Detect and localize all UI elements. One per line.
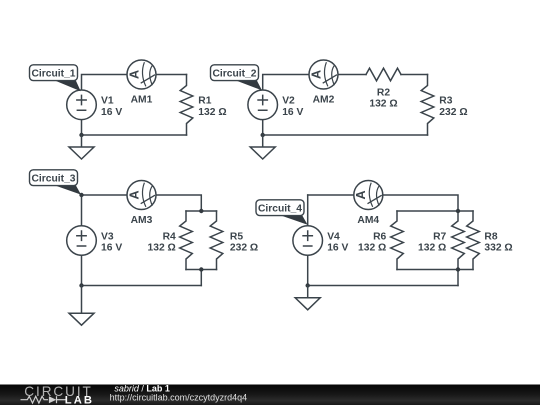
svg-text:V3: V3 <box>101 231 114 242</box>
svg-text:132 Ω: 132 Ω <box>369 99 397 110</box>
resistor R2 <box>366 68 401 81</box>
svg-text:R4: R4 <box>163 231 176 242</box>
R1 labels <box>198 96 226 118</box>
CircuitLab logo wire-resistor-diode glyph <box>21 396 66 403</box>
svg-text:A: A <box>354 190 368 199</box>
resistor R8 <box>467 211 480 270</box>
svg-text:R5: R5 <box>230 231 243 242</box>
wire: V4 vertical <box>307 195 309 286</box>
svg-text:232 Ω: 232 Ω <box>230 243 258 254</box>
R2 labels <box>369 87 397 109</box>
node: parallel top junction circuit 4 <box>456 209 460 213</box>
wire: top rail circuit 3 <box>82 195 202 211</box>
ground (circuit 1) <box>69 135 94 159</box>
wire: bottom rail circuit 3 <box>82 285 202 287</box>
svg-text:132 Ω: 132 Ω <box>198 107 226 118</box>
node: parallel bottom junction circuit 4 <box>456 267 460 271</box>
svg-text:132 Ω: 132 Ω <box>418 243 446 254</box>
V3 value labels <box>101 231 122 253</box>
R3 labels <box>439 96 467 118</box>
voltage source V1 <box>67 90 97 120</box>
V2 value labels <box>282 96 303 118</box>
svg-text:16 V: 16 V <box>327 243 348 254</box>
wire: parallel bottom bar circuit 4 <box>397 270 473 286</box>
wire: bottom rail circuit 4 <box>308 285 458 287</box>
node: parallel bottom junction circuit 3 <box>199 267 203 271</box>
voltage source V3 <box>67 226 97 256</box>
svg-text:16 V: 16 V <box>101 107 122 118</box>
resistor R3 <box>421 75 434 136</box>
svg-text:AM4: AM4 <box>357 215 379 226</box>
resistor R1 <box>180 75 193 136</box>
svg-text:16 V: 16 V <box>282 107 303 118</box>
svg-text:R3: R3 <box>439 96 452 107</box>
svg-text:A: A <box>127 190 141 199</box>
callout label Circuit_2 <box>211 65 262 91</box>
wire: bottom rail circuit 2 <box>263 119 428 135</box>
wire: top rail circuit 1 (V1 top to R1 top) <box>82 75 187 91</box>
resistor R7 <box>452 211 465 270</box>
resistor R4 <box>180 211 193 270</box>
svg-text:R2: R2 <box>377 87 390 98</box>
wire: parallel bottom bar circuit 3 <box>186 270 217 286</box>
node: junction at V4-/ground <box>306 283 310 287</box>
footer bar <box>0 385 540 405</box>
svg-text:232 Ω: 232 Ω <box>439 107 467 118</box>
callout label Circuit_1 <box>30 65 81 92</box>
svg-text:Circuit_3: Circuit_3 <box>31 174 75 185</box>
ammeter AM1 <box>127 60 156 89</box>
svg-text:R1: R1 <box>198 96 211 107</box>
ammeter AM2 <box>309 60 338 89</box>
wire: parallel top bar circuit 4 <box>397 210 473 212</box>
svg-text:R6: R6 <box>373 231 386 242</box>
R5 labels <box>230 231 258 253</box>
node: parallel top junction circuit 3 <box>199 209 203 213</box>
resistor R6 <box>391 211 404 270</box>
wire: top rail circuit 4 <box>308 195 458 211</box>
voltage source V4 <box>293 226 323 256</box>
wire: bottom rail circuit 1 (V1 bottom to R1 bottom) <box>82 119 187 135</box>
ammeter AM3 <box>127 181 156 210</box>
svg-text:V1: V1 <box>101 96 114 107</box>
svg-text:V2: V2 <box>282 96 295 107</box>
svg-text:LAB: LAB <box>65 394 94 405</box>
R6 labels <box>358 231 387 253</box>
node: junction at V3-/ground <box>79 283 83 287</box>
node: junction at V1-/ground <box>79 133 83 137</box>
callout label Circuit_4 <box>256 200 308 225</box>
R4 labels <box>148 231 177 253</box>
svg-text:V4: V4 <box>327 231 340 242</box>
wire: top rail circuit 2 (V2 top, through R2 position, to R3 top) <box>263 75 428 91</box>
ammeter AM4 <box>354 181 383 210</box>
V1 value labels <box>101 96 122 118</box>
svg-text:AM3: AM3 <box>131 215 153 226</box>
svg-text:Circuit_4: Circuit_4 <box>258 204 302 215</box>
voltage source V2 <box>248 90 278 120</box>
svg-text:332 Ω: 332 Ω <box>484 243 512 254</box>
svg-text:A: A <box>309 70 323 79</box>
ground (circuit 3) <box>69 286 94 326</box>
V4 value labels <box>327 231 348 253</box>
callout label Circuit_3 <box>30 170 82 195</box>
resistor R5 <box>210 211 223 270</box>
svg-text:Circuit_1: Circuit_1 <box>31 69 75 80</box>
svg-text:Circuit_2: Circuit_2 <box>212 69 256 80</box>
svg-text:132 Ω: 132 Ω <box>358 243 386 254</box>
R7 labels <box>418 231 447 253</box>
svg-text:16 V: 16 V <box>101 243 122 254</box>
svg-text:http://circuitlab.com/czcytdyz: http://circuitlab.com/czcytdyzrd4q4 <box>110 392 248 402</box>
node: junction at V2-/ground <box>261 133 265 137</box>
ground (circuit 4) <box>295 286 320 310</box>
svg-text:132 Ω: 132 Ω <box>148 243 176 254</box>
svg-text:AM2: AM2 <box>313 95 335 106</box>
wire: parallel top bar circuit 3 <box>186 210 217 212</box>
svg-text:R8: R8 <box>484 231 497 242</box>
svg-text:R7: R7 <box>433 231 446 242</box>
svg-text:A: A <box>127 70 141 79</box>
wire: V3 vertical <box>81 195 83 286</box>
ground (circuit 2) <box>250 135 275 159</box>
svg-text:AM1: AM1 <box>131 95 153 106</box>
R8 labels <box>484 231 512 253</box>
node: circuit 3 top-left corner <box>79 193 83 197</box>
